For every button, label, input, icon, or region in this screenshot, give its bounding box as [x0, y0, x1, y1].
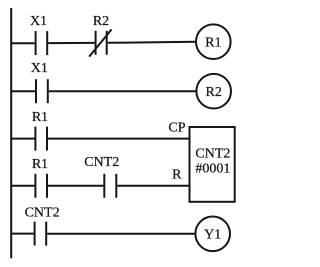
wire rung1: rail to contact X1	[10, 42, 35, 44]
svg-text:X1: X1	[31, 61, 48, 76]
wire rung5: rail to contact CNT2	[10, 233, 34, 235]
svg-text:CNT2: CNT2	[25, 205, 60, 220]
coil R2	[196, 74, 231, 109]
wire rung3: R1 to counter CP input	[48, 138, 189, 140]
counter box CNT2 #0001	[190, 127, 235, 202]
contact CNT2 (rung 4, normally open)	[104, 174, 116, 198]
wire rung5: CNT2 to coil Y1	[47, 233, 195, 235]
svg-text:CNT2: CNT2	[84, 155, 119, 170]
svg-text:R2: R2	[206, 85, 222, 100]
svg-text:CP: CP	[168, 120, 185, 135]
svg-text:R1: R1	[205, 35, 221, 50]
svg-text:X1: X1	[30, 14, 47, 29]
svg-text:R1: R1	[32, 110, 48, 125]
wire rung1: X1 to R2	[48, 42, 94, 44]
contact R2 (rung 1, normally closed)	[89, 29, 111, 56]
contact R1 (rung 3, normally open)	[35, 127, 47, 151]
wire rung4: R1 to contact CNT2	[48, 185, 103, 187]
coil Y1	[195, 217, 230, 252]
wire rung2: X1 to coil R2	[49, 90, 197, 92]
contact X1 (rung 1, normally open)	[36, 31, 48, 55]
left power rail	[10, 8, 12, 258]
svg-text:Y1: Y1	[204, 228, 221, 243]
wire rung2: rail to contact X1	[10, 90, 35, 92]
wire rung1: R2 to coil R1	[108, 42, 197, 43]
contact R1 (rung 4, normally open)	[35, 174, 47, 198]
contact CNT2 (rung 5, normally open)	[35, 222, 47, 246]
contact X1 (rung 2, normally open)	[36, 79, 48, 103]
wire rung3: rail to contact R1	[10, 138, 34, 140]
svg-text:R2: R2	[93, 14, 109, 29]
coil R1	[196, 24, 231, 59]
wire rung4: rail to contact R1	[10, 185, 34, 187]
wire rung4: CNT2 to counter R input	[117, 185, 189, 187]
svg-text:#0001: #0001	[195, 161, 230, 176]
svg-text:R1: R1	[32, 157, 48, 172]
svg-text:R: R	[172, 168, 182, 183]
svg-text:CNT2: CNT2	[195, 146, 230, 161]
